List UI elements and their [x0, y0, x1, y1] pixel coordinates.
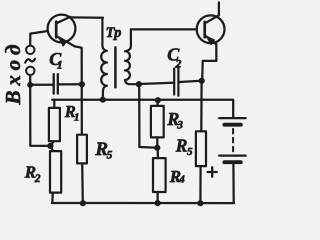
- node B (C1/emitter junction): [79, 81, 85, 87]
- transistor Q1: [48, 15, 76, 47]
- wire C2 node down to R5 (right): [200, 81, 203, 132]
- svg-text:5: 5: [107, 150, 113, 162]
- node A (input/C1 junction): [27, 82, 33, 88]
- transistor Q2: [197, 15, 225, 45]
- resistor R5 (left, emitter resistor): [77, 135, 87, 204]
- input terminal lower: [26, 67, 34, 75]
- transformer core: [114, 47, 117, 87]
- wire Q1 collector to transformer primary (top rail): [70, 16, 103, 19]
- wire secondary bottom down to R3/R4 junction: [139, 84, 155, 147]
- node: R4 at bottom rail: [155, 200, 161, 206]
- bottom rail: [52, 202, 234, 204]
- node: R3-to-rail junction: [155, 97, 161, 103]
- resistor R1: [49, 100, 60, 146]
- resistor R2: [50, 146, 61, 203]
- node: secondary bottom junction: [136, 81, 142, 87]
- resistor R3: [151, 100, 164, 148]
- wire Q1 emitter down to R5 (left): [75, 46, 82, 134]
- node: R5 right at bottom rail: [197, 200, 203, 206]
- wire lower terminal down to node A: [29, 75, 31, 85]
- svg-text:3: 3: [176, 120, 183, 132]
- svg-text:4: 4: [178, 174, 185, 186]
- resistor R5 (right, emitter resistor): [196, 131, 206, 203]
- input terminal upper: [26, 46, 34, 54]
- transformer Tp secondary winding: [125, 29, 139, 84]
- svg-text:1: 1: [57, 58, 63, 72]
- transformer Tp primary winding: [101, 18, 107, 100]
- node: R5 left at bottom rail: [80, 200, 86, 206]
- wire Q1 base to input terminal: [30, 31, 48, 45]
- middle supply rail: [52, 100, 233, 118]
- node: primary-to-rail junction: [100, 97, 106, 103]
- ac source tilde: [25, 59, 35, 63]
- wire Q2 emitter down to C2 node: [202, 44, 216, 81]
- svg-text:R: R: [175, 135, 188, 155]
- svg-text:Тр: Тр: [106, 25, 122, 41]
- node: R3/R4 junction: [154, 145, 160, 151]
- svg-text:5: 5: [187, 146, 193, 158]
- wire Q2 base to transformer secondary: [131, 28, 197, 30]
- svg-text:1: 1: [74, 112, 80, 124]
- battery plus sign: [208, 167, 217, 176]
- svg-text:Вход: Вход: [1, 39, 25, 105]
- svg-text:2: 2: [174, 57, 181, 71]
- battery: [219, 118, 246, 203]
- resistor R4: [153, 148, 166, 203]
- node: R1/R2 junction: [47, 143, 53, 149]
- wire node A down and right to R1/R2 junction: [30, 85, 50, 146]
- wire Q2 collector up: [218, 2, 220, 15]
- svg-text:2: 2: [34, 173, 41, 185]
- capacitor C1: [30, 74, 81, 93]
- node: C2/emitter junction: [199, 78, 205, 84]
- capacitor C2: [139, 67, 202, 96]
